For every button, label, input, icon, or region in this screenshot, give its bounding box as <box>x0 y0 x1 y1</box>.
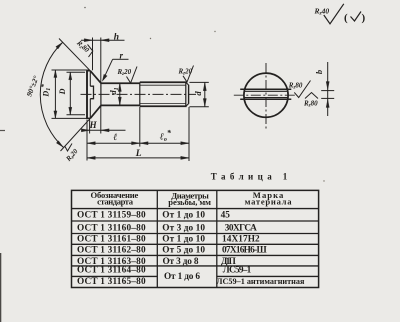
slot notch <box>90 86 93 99</box>
Rz80 upper tick <box>294 81 310 98</box>
table row line 4 <box>72 254 319 256</box>
arc arrowhead top <box>56 42 63 49</box>
svg-text:ОСТ 1 31161–80: ОСТ 1 31161–80 <box>77 235 146 245</box>
svg-text:стандарта: стандарта <box>97 197 134 207</box>
center axis line (main view) <box>81 93 197 95</box>
Rz20 tick lower left <box>65 144 72 152</box>
svg-text:ОСТ 1 31162–80: ОСТ 1 31162–80 <box>77 246 146 256</box>
table column line 2 <box>216 190 218 287</box>
svg-text:ℓ: ℓ <box>113 133 117 143</box>
r leader shelf <box>113 58 129 60</box>
scan speck 1 <box>84 7 86 9</box>
lo arrow right <box>181 142 189 145</box>
cone angle extension top <box>59 39 90 71</box>
slot upper outer edge <box>240 88 291 90</box>
l arrow right <box>132 142 140 145</box>
d arrow top <box>203 82 206 90</box>
slot upper inner edge <box>244 90 288 92</box>
svg-text:ОСТ 1 31165–80: ОСТ 1 31165–80 <box>77 277 146 287</box>
shank top outline <box>101 82 140 84</box>
slot lower outer edge <box>240 98 291 100</box>
d extension top <box>189 81 208 83</box>
table row line 1 <box>72 220 319 222</box>
thread major top <box>140 81 187 83</box>
svg-text:30ХГСА: 30ХГСА <box>225 224 257 234</box>
D1* arrow bottom <box>54 111 57 119</box>
svg-text:ЛС59–1: ЛС59–1 <box>223 266 252 276</box>
svg-text:Rz20: Rz20 <box>178 67 193 76</box>
head rim bottom edge <box>86 117 90 119</box>
svg-text:От 3 до 8: От 3 до 8 <box>163 257 199 267</box>
svg-text:): ) <box>362 12 366 24</box>
Rz20 tick on shank <box>127 67 138 84</box>
scan speck 3 <box>214 31 215 32</box>
H dimension line <box>82 129 126 131</box>
side view vertical center line <box>265 63 267 130</box>
lo arrow left <box>140 142 148 145</box>
svg-text:ОСТ 1 31160–80: ОСТ 1 31160–80 <box>77 224 146 234</box>
svg-text:материала: материала <box>245 197 293 207</box>
h extension left <box>92 38 94 71</box>
head rim top edge <box>86 70 90 72</box>
svg-text:07Х16Н6-Ш: 07Х16Н6-Ш <box>222 246 267 256</box>
D1* extension top <box>52 69 90 71</box>
scan speck 2 <box>150 38 151 39</box>
cone angle extension bottom <box>61 118 91 151</box>
slot bottom line lower <box>89 99 91 119</box>
svg-text:От 3 до 10: От 3 до 10 <box>162 224 205 234</box>
r leader line <box>103 59 113 80</box>
dimension D1* line <box>54 70 56 118</box>
H arrow right <box>101 129 109 132</box>
h arrow right <box>101 39 109 42</box>
svg-text:Таблица 1: Таблица 1 <box>211 172 288 182</box>
b dimension line <box>327 62 329 116</box>
d extension bottom <box>189 106 208 108</box>
side view horizontal center line <box>234 94 296 96</box>
D arrow bottom <box>69 107 72 115</box>
table outer border <box>72 190 319 287</box>
end chamfer top <box>186 82 189 85</box>
Rz40 roughness tick top right <box>324 4 344 24</box>
dimension D line <box>69 72 71 114</box>
svg-text:45: 45 <box>221 211 231 221</box>
shank bottom outline <box>101 104 140 106</box>
l extension line at face <box>86 120 88 161</box>
L dimension line <box>87 157 189 159</box>
lo dimension line <box>140 142 189 144</box>
scan speck 4 <box>323 180 324 181</box>
Rz80 tick at head face <box>88 45 93 58</box>
check in parentheses <box>351 12 362 22</box>
D arrow top <box>69 72 72 80</box>
svg-text:Rz80: Rz80 <box>288 82 303 91</box>
svg-text:H: H <box>89 120 98 130</box>
table row line 5 <box>72 265 319 267</box>
angle arc 90deg <box>40 42 63 147</box>
extension at thread start <box>139 107 141 147</box>
table row line 6 partial col3 <box>217 275 319 277</box>
svg-text:Rz20: Rz20 <box>117 68 132 77</box>
L arrow left <box>87 156 95 159</box>
b arrow upper <box>326 82 329 90</box>
r leader arrow <box>102 74 107 81</box>
svg-text:резьбы, мм: резьбы, мм <box>168 197 211 207</box>
head face <box>86 71 88 119</box>
scan artifact left edge line <box>0 253 2 322</box>
b extension upper <box>321 90 334 92</box>
l dimension line <box>87 142 140 144</box>
d1 arrow top <box>118 83 121 91</box>
svg-text:От 1 до 6: От 1 до 6 <box>164 272 200 282</box>
D1* arrow top <box>54 70 57 78</box>
svg-text:D: D <box>58 88 67 95</box>
svg-text:r: r <box>120 50 124 60</box>
L arrow right <box>181 156 189 159</box>
table row line 6 partial col1 <box>72 275 158 277</box>
cone top edge <box>90 71 101 83</box>
d1 arrow bottom <box>118 97 121 105</box>
svg-text:h: h <box>114 33 119 43</box>
svg-text:От 5 до 10: От 5 до 10 <box>162 246 205 256</box>
svg-text:От 1 до 10: От 1 до 10 <box>162 211 205 221</box>
svg-text:Rz80: Rz80 <box>303 100 318 109</box>
d dimension line <box>204 82 206 106</box>
H arrow left <box>81 129 89 132</box>
slot lower inner edge <box>244 97 288 99</box>
d arrow bottom <box>203 99 206 107</box>
side view head circle <box>244 73 288 117</box>
d1 dimension line <box>119 83 121 105</box>
svg-text:14Х17Н2: 14Х17Н2 <box>222 235 260 245</box>
thread minor bottom thin <box>140 103 186 105</box>
Rz20 tick on thread <box>183 66 194 83</box>
svg-text:L: L <box>135 149 142 159</box>
svg-text:ЛС59–1 антимагнитная: ЛС59–1 антимагнитная <box>216 277 305 286</box>
thread minor top thin <box>140 84 186 86</box>
D extension bottom <box>67 114 86 116</box>
table header line <box>72 208 319 210</box>
h dimension line <box>81 39 125 41</box>
H extension right <box>100 106 102 133</box>
l arrow left <box>87 142 95 145</box>
end chamfer bottom <box>186 104 189 107</box>
scan artifact left edge dash <box>0 130 5 132</box>
b arrow lower <box>326 99 329 107</box>
thread major bottom <box>140 105 187 107</box>
slot bottom line upper <box>89 71 91 86</box>
cone bottom edge <box>90 105 101 118</box>
table column line 1 <box>156 190 158 287</box>
svg-text:От 1 до 10: От 1 до 10 <box>162 235 205 245</box>
table row line 3 <box>72 243 319 245</box>
h arrow left <box>84 39 92 42</box>
end face <box>188 85 190 104</box>
b extension lower <box>321 97 334 99</box>
svg-text:Rz40: Rz40 <box>314 7 330 17</box>
D1* extension bottom <box>52 117 90 119</box>
Rz80 lower tick <box>305 93 318 99</box>
svg-text:b: b <box>314 70 324 74</box>
h extension right <box>100 38 102 84</box>
svg-text:ОСТ 1 31159–80: ОСТ 1 31159–80 <box>77 211 146 221</box>
D extension top <box>67 71 86 73</box>
table row line 2 <box>72 233 319 235</box>
cone-shank junction edge <box>100 83 102 105</box>
extension at thread end <box>188 107 190 161</box>
H extension left <box>89 119 91 133</box>
svg-text:ОСТ 1 31164–80: ОСТ 1 31164–80 <box>77 266 146 276</box>
thread end edge <box>185 82 187 106</box>
svg-text:(: ( <box>344 12 348 24</box>
arc arrowhead bottom <box>56 141 63 148</box>
thread start edge <box>139 82 141 106</box>
